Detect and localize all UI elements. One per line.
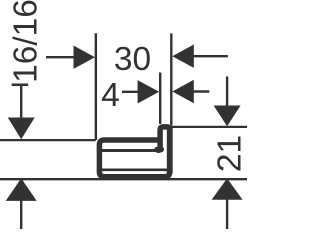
wire left extension line from profile top xyxy=(0,139,96,141)
profile hook lip curl blob xyxy=(157,146,164,152)
svg-text:4: 4 xyxy=(101,77,120,114)
svg-text:16/16: 16/16 xyxy=(8,0,45,83)
dimension arrow 21 down xyxy=(214,106,241,127)
wire 21 lower arrow tail xyxy=(226,200,228,230)
dimension arrow 21 up xyxy=(212,178,243,199)
profile rail outer body with hook fold xyxy=(99,127,169,177)
dimension 16/16 leader tick xyxy=(12,84,29,87)
wire 16/16 up arrow tail xyxy=(20,200,22,229)
dimension arrow 30 left xyxy=(46,46,95,69)
wire wall mounting surface line xyxy=(0,178,247,180)
dimension arrow 4 left xyxy=(122,80,159,103)
svg-text:30: 30 xyxy=(114,41,151,78)
wire right extension line from hook top xyxy=(171,126,247,128)
dimension 16/16 line down xyxy=(20,85,22,119)
dimension 21 upper line xyxy=(226,77,228,107)
node A vertical extension line left of 30 dimension xyxy=(95,33,97,140)
dimension arrow 16/16 down xyxy=(8,118,35,140)
dimension arrow 30 right xyxy=(172,45,228,68)
profile right wall reinforcing stroke xyxy=(167,127,173,173)
profile inner bottom wall line xyxy=(102,168,167,171)
dimension arrow 16/16 up xyxy=(6,178,37,201)
profile inner top wall line xyxy=(102,149,158,152)
node B vertical extension line right of 30 dimension xyxy=(170,33,172,125)
node C vertical extension line left of 4 dimension xyxy=(159,73,161,125)
svg-text:21: 21 xyxy=(212,135,248,172)
dimension arrow 4 right xyxy=(172,80,209,103)
